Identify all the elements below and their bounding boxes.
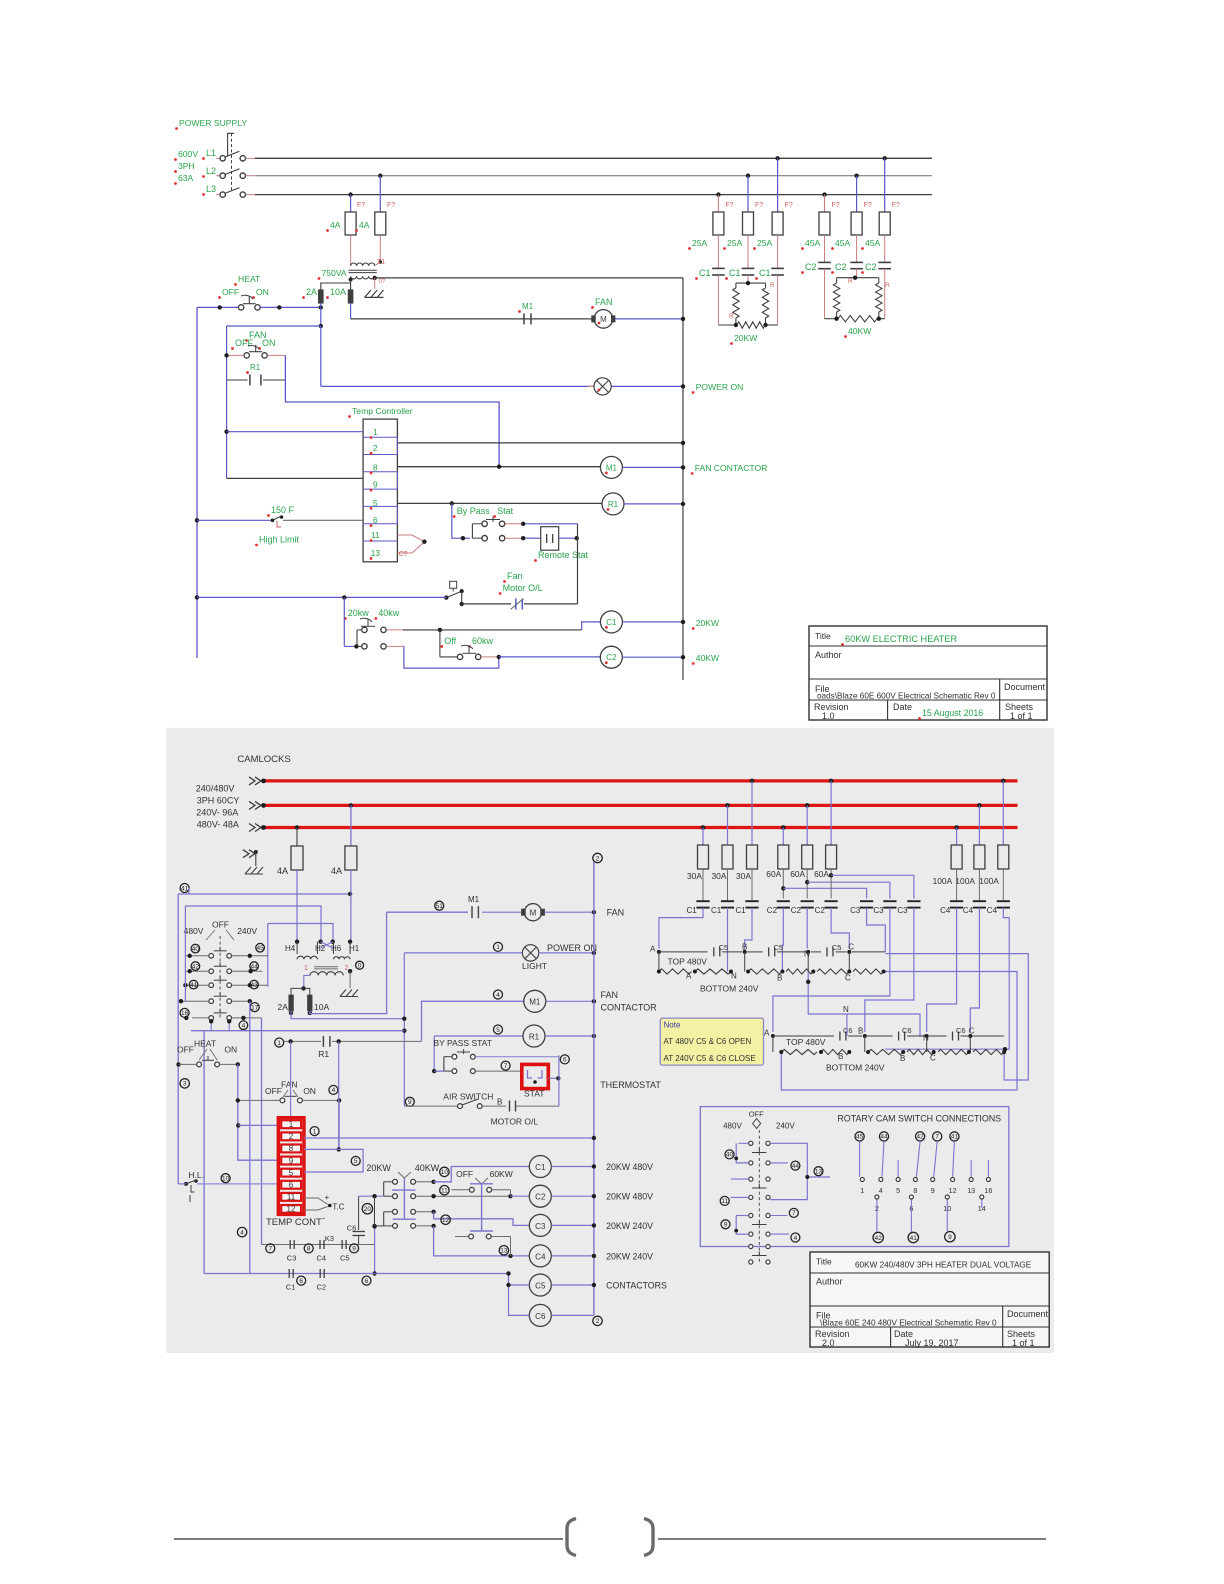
wire bypass top out <box>475 1056 559 1058</box>
svg-text:C1: C1 <box>729 268 741 278</box>
svg-text:2: 2 <box>596 855 600 862</box>
svg-text:F?: F? <box>357 202 365 209</box>
svg-text:1 of 1: 1 of 1 <box>1010 711 1033 721</box>
wire bank row4 to C4 coil <box>416 1225 434 1227</box>
svg-text:L1: L1 <box>206 148 216 158</box>
svg-text:12: 12 <box>442 1217 450 1224</box>
svg-text:F?: F? <box>864 202 872 209</box>
svg-text:100A: 100A <box>979 876 999 886</box>
svg-text:44: 44 <box>792 1163 800 1170</box>
svg-text:3PH 60CY: 3PH 60CY <box>197 796 240 806</box>
fuse 2A control <box>289 995 293 1011</box>
svg-text:40KW: 40KW <box>415 1163 440 1173</box>
svg-text:7: 7 <box>268 1246 272 1253</box>
wire right loop 2 <box>885 954 1028 1080</box>
circled 13c <box>814 1167 823 1176</box>
wire 480V top loop <box>188 888 190 894</box>
svg-text:480V: 480V <box>723 1121 742 1130</box>
wire T1 to fuses 2A/10A <box>321 280 351 291</box>
selector right leads <box>232 955 268 957</box>
svg-text:C2: C2 <box>815 906 826 915</box>
wire light/airswitch riser <box>403 953 405 1106</box>
lamp POWER ON <box>320 326 322 386</box>
wire fuse1 to H4 <box>296 870 298 942</box>
node bus2 to F2 <box>349 803 353 807</box>
wire pin5 row <box>304 1149 363 1172</box>
circled 40 <box>191 944 200 953</box>
coil C4 control <box>529 1245 551 1267</box>
transformer T1 750VA <box>351 263 375 266</box>
svg-text:Remote Stat: Remote Stat <box>538 550 589 560</box>
svg-text:9: 9 <box>373 480 378 490</box>
node L1 tap 45A <box>883 156 887 160</box>
svg-text:BOTTOM 240V: BOTTOM 240V <box>700 984 759 994</box>
svg-text:60kw: 60kw <box>472 636 494 646</box>
svg-text:480V- 48A: 480V- 48A <box>197 820 239 830</box>
svg-text:OFF: OFF <box>222 287 239 297</box>
svg-text:H6: H6 <box>331 944 342 953</box>
wire HEAT row <box>197 306 238 308</box>
svg-text:Motor O/L: Motor O/L <box>503 583 543 593</box>
fuse 25A #1 <box>713 212 724 235</box>
svg-text:1: 1 <box>289 1120 294 1129</box>
svg-text:B: B <box>497 1098 502 1107</box>
svg-text:40: 40 <box>192 946 200 953</box>
svg-text:30A: 30A <box>687 871 702 881</box>
svg-text:9: 9 <box>948 1234 952 1241</box>
wire aux vertical <box>290 1042 292 1126</box>
svg-text:60A: 60A <box>766 869 781 879</box>
svg-text:H4: H4 <box>285 944 296 953</box>
svg-text:C1: C1 <box>687 906 698 915</box>
svg-text:R1: R1 <box>608 500 619 509</box>
wire L2 bus <box>255 175 932 177</box>
title block lower sheet <box>810 1252 1049 1347</box>
svg-text:H2: H2 <box>315 944 326 953</box>
svg-text:ON: ON <box>303 1086 316 1096</box>
svg-text:FAN: FAN <box>281 1080 298 1090</box>
circled 4b <box>239 1021 248 1030</box>
svg-text:45A: 45A <box>865 238 881 248</box>
circled 13b <box>499 1246 508 1255</box>
svg-text:+: + <box>325 1193 330 1202</box>
svg-text:25A: 25A <box>727 238 743 248</box>
svg-text:8: 8 <box>289 1144 294 1153</box>
circled 9c <box>721 1220 730 1229</box>
circled 2 bottom <box>593 1316 602 1325</box>
circled 3 <box>180 1079 189 1088</box>
wire fan motor row <box>387 911 468 913</box>
wire right loop 1 <box>781 972 1017 1091</box>
svg-text:30A: 30A <box>712 871 727 881</box>
svg-text:20: 20 <box>364 1206 372 1213</box>
footer rule right <box>658 1538 1046 1540</box>
wire K-caps row1 <box>262 1244 375 1246</box>
svg-text:C3: C3 <box>535 1222 546 1231</box>
svg-text:L2: L2 <box>206 166 216 176</box>
svg-text:C1: C1 <box>286 1283 296 1292</box>
wire 40kw routing <box>386 645 404 647</box>
wire R1 to pin8 <box>338 1042 340 1150</box>
svg-text:Document: Document <box>1004 682 1046 692</box>
coil C1 control <box>529 1156 551 1178</box>
wire N feed <box>846 1014 848 1036</box>
svg-text:OFF: OFF <box>265 1086 282 1096</box>
svg-text:12: 12 <box>287 1205 296 1214</box>
svg-text:Title: Title <box>816 1257 832 1267</box>
wire 25A feeders <box>717 195 719 212</box>
fuse F3 2A <box>319 290 323 303</box>
wire bank row3 to C3 coil <box>416 1211 434 1213</box>
fuse 60A #2 <box>805 803 810 808</box>
svg-text:4A: 4A <box>331 866 342 876</box>
svg-text:0: 0 <box>358 963 362 970</box>
svg-text:16: 16 <box>181 1010 189 1017</box>
svg-text:25A: 25A <box>692 238 708 248</box>
circled 6b2 <box>560 1055 569 1064</box>
contact fan motor O/L <box>515 598 517 609</box>
capacitor C2b <box>319 1269 321 1278</box>
lower schematic panel background <box>166 728 1054 1353</box>
svg-text:oads\Blaze 60E 600V Electrical: oads\Blaze 60E 600V Electrical Schematic… <box>817 692 996 701</box>
svg-text:C2: C2 <box>805 262 817 272</box>
fuse 45A #3 <box>879 212 890 235</box>
node 2A bottom <box>319 305 323 309</box>
circled 44b <box>791 1161 800 1170</box>
svg-text:4: 4 <box>332 1087 336 1094</box>
svg-text:ROTARY CAM SWITCH CONNECTIONS: ROTARY CAM SWITCH CONNECTIONS <box>837 1114 1001 1124</box>
wire HL row <box>178 1183 186 1185</box>
svg-text:C6: C6 <box>956 1026 966 1035</box>
wire 20kw out to C1 <box>386 629 403 631</box>
svg-text:M: M <box>600 315 607 324</box>
svg-text:T1: T1 <box>377 259 385 266</box>
circled 41 <box>180 884 189 893</box>
circled 20 <box>362 1204 372 1214</box>
svg-text:Temp Controller: Temp Controller <box>352 406 413 416</box>
svg-text:Stat: Stat <box>497 506 514 516</box>
svg-text:R1: R1 <box>250 363 261 372</box>
circled 41b <box>189 980 198 989</box>
svg-text:480V: 480V <box>184 926 204 936</box>
capacitor C1b <box>288 1269 290 1278</box>
svg-text:FAN: FAN <box>595 297 613 307</box>
wire motor to rail <box>615 318 683 320</box>
motor M control <box>524 904 541 921</box>
circled 10b <box>221 1174 230 1183</box>
svg-text:6: 6 <box>299 1278 303 1285</box>
node L2 tap 25A <box>746 174 750 178</box>
wire rail 204 <box>203 1031 205 1273</box>
wire O/L feed <box>197 596 446 598</box>
wire C6 feed <box>509 1285 530 1315</box>
wire C1 coil to rail <box>622 621 683 623</box>
svg-text:AIR SWITCH: AIR SWITCH <box>443 1092 493 1102</box>
circled 16 <box>180 1008 189 1017</box>
circled 11b <box>440 1186 449 1195</box>
svg-text:N: N <box>731 972 737 981</box>
svg-text:C3: C3 <box>897 906 908 915</box>
svg-text:6: 6 <box>373 515 378 525</box>
svg-text:11: 11 <box>721 1198 728 1205</box>
wire pin2 long <box>304 1137 594 1139</box>
svg-text:11: 11 <box>371 530 380 540</box>
svg-text:3: 3 <box>183 1081 187 1088</box>
wires rotary terminals <box>859 1141 861 1177</box>
camlock L1 <box>249 777 255 785</box>
circled 40b <box>725 1150 734 1159</box>
wire rail 249 <box>249 1001 251 1273</box>
svg-text:H1: H1 <box>349 944 360 953</box>
svg-text:C3: C3 <box>287 1254 297 1263</box>
thermostat STAT highlighted <box>522 1064 549 1088</box>
svg-text:POWER SUPPLY: POWER SUPPLY <box>179 118 247 128</box>
svg-text:July 19, 2017: July 19, 2017 <box>905 1338 959 1348</box>
svg-text:45: 45 <box>856 1134 864 1141</box>
svg-text:MOTOR O/L: MOTOR O/L <box>491 1117 539 1127</box>
wire left rail B <box>184 906 186 1001</box>
wire pin8 row <box>304 1148 339 1150</box>
svg-text:OFF: OFF <box>749 1110 764 1119</box>
svg-text:F?: F? <box>755 202 763 209</box>
contact C2 pole b <box>850 261 863 263</box>
node L3-F1 tap <box>348 192 352 196</box>
svg-text:41: 41 <box>181 885 189 892</box>
svg-text:POWER ON: POWER ON <box>547 943 597 953</box>
wire C5 feed <box>509 1274 530 1286</box>
circled 4c <box>494 990 503 999</box>
svg-text:25A: 25A <box>757 238 773 248</box>
coil M1 <box>600 456 622 478</box>
circled 8 <box>304 1244 313 1253</box>
fuse 30A #3 <box>750 779 755 784</box>
svg-text:5: 5 <box>496 1027 500 1034</box>
circled 44 <box>250 962 259 971</box>
fuse 25A #2 <box>743 212 754 235</box>
svg-text:0?: 0? <box>379 279 386 285</box>
svg-text:C5: C5 <box>340 1254 350 1263</box>
svg-text:150 F: 150 F <box>271 505 295 515</box>
svg-text:C?: C? <box>399 551 408 558</box>
svg-text:C2: C2 <box>865 262 877 272</box>
svg-text:9: 9 <box>289 1156 294 1165</box>
svg-text:5: 5 <box>373 498 378 508</box>
footer page brace right <box>644 1519 653 1556</box>
wires fuse to C1 contacts <box>717 235 719 268</box>
svg-text:CAMLOCKS: CAMLOCKS <box>237 754 290 765</box>
svg-text:R: R <box>848 278 853 285</box>
svg-text:C1: C1 <box>606 618 617 627</box>
svg-text:100A: 100A <box>933 876 953 886</box>
svg-text:B: B <box>838 1052 843 1061</box>
svg-text:B: B <box>858 1027 863 1036</box>
svg-text:240V: 240V <box>776 1121 795 1130</box>
svg-text:20KW: 20KW <box>696 618 720 628</box>
svg-text:FAN CONTACTOR: FAN CONTACTOR <box>695 463 768 473</box>
svg-text:2.0: 2.0 <box>822 1338 835 1348</box>
wire fan motor line <box>351 318 592 320</box>
svg-text:C4: C4 <box>940 906 951 915</box>
svg-text:40KW: 40KW <box>848 326 872 336</box>
coil C1 <box>600 611 622 633</box>
svg-text:63A: 63A <box>178 173 194 183</box>
svg-text:M1: M1 <box>522 302 534 311</box>
svg-text:7: 7 <box>935 1134 939 1141</box>
wire rail 261 <box>261 1018 263 1245</box>
wire remote stat to O/L <box>559 537 578 539</box>
svg-text:60KW: 60KW <box>490 1169 513 1179</box>
svg-text:51: 51 <box>436 903 444 910</box>
svg-text:C5: C5 <box>535 1281 546 1290</box>
svg-text:C6: C6 <box>902 1026 912 1035</box>
wire pin1 control <box>238 1124 278 1126</box>
svg-text:60KW ELECTRIC HEATER: 60KW ELECTRIC HEATER <box>845 634 958 644</box>
wire 2A to fan-switch rail <box>320 303 322 326</box>
svg-text:B: B <box>900 1054 905 1063</box>
svg-text:42: 42 <box>875 1235 883 1242</box>
svg-text:Off: Off <box>444 636 456 646</box>
wire bank row1 to C1 coil <box>416 1181 434 1183</box>
svg-text:C1: C1 <box>699 268 711 278</box>
camlock L2 <box>249 801 255 809</box>
svg-text:20KW: 20KW <box>366 1163 391 1173</box>
contact motor O/L control <box>482 1105 506 1107</box>
wire fan rail <box>226 326 228 478</box>
circled 51 <box>435 901 444 910</box>
svg-text:TOP 480V: TOP 480V <box>668 957 708 967</box>
svg-text:20kw: 20kw <box>348 608 370 618</box>
ground T1 secondary <box>374 278 376 289</box>
svg-text:POWER ON: POWER ON <box>696 382 744 392</box>
node L1 tap 25A <box>775 156 779 160</box>
svg-text:TEMP CONT: TEMP CONT <box>266 1217 322 1228</box>
svg-text:42: 42 <box>192 963 200 970</box>
svg-text:C1: C1 <box>535 1163 546 1172</box>
selector left leads <box>185 955 208 957</box>
svg-text:16: 16 <box>984 1186 992 1195</box>
svg-text:1: 1 <box>313 1128 317 1135</box>
svg-text:9: 9 <box>931 1186 935 1195</box>
svg-text:100A: 100A <box>955 876 975 886</box>
svg-text:A: A <box>764 1029 770 1038</box>
svg-text:15 August 2016: 15 August 2016 <box>922 708 983 718</box>
svg-text:Fan: Fan <box>507 571 523 581</box>
coil C2 <box>600 646 622 668</box>
svg-text:C4: C4 <box>535 1252 546 1261</box>
wire T1 secondary to right rail <box>375 277 683 279</box>
svg-text:1: 1 <box>304 965 308 972</box>
svg-text:30A: 30A <box>736 871 751 881</box>
svg-text:C5: C5 <box>832 943 842 952</box>
circled 2 top <box>593 853 602 862</box>
svg-text:AT 240V C5 & C6 CLOSE: AT 240V C5 & C6 CLOSE <box>664 1054 756 1063</box>
svg-text:42: 42 <box>916 1134 924 1141</box>
svg-text:750VA: 750VA <box>322 268 347 278</box>
svg-text:20KW 480V: 20KW 480V <box>606 1162 653 1172</box>
svg-text:45A: 45A <box>805 238 821 248</box>
contactor contacts C1 C2 C3 C4 rows <box>702 869 704 901</box>
bus L2 <box>262 804 1018 807</box>
wire rotary pair1 out <box>770 1143 807 1199</box>
svg-text:240V: 240V <box>237 926 257 936</box>
circled 7d <box>789 1208 798 1217</box>
footer page brace left <box>567 1519 576 1556</box>
svg-text:C1: C1 <box>759 268 771 278</box>
fuse 10A control <box>308 995 312 1011</box>
circled 10c <box>440 1167 449 1176</box>
wire F2 feeder <box>379 176 381 212</box>
fuse 4A control #1 <box>291 846 303 870</box>
svg-text:44: 44 <box>880 1134 888 1141</box>
wire left rail <box>196 307 198 658</box>
svg-text:M1: M1 <box>529 998 541 1007</box>
fuse 30A #2 <box>725 803 730 808</box>
circled 6c <box>297 1276 306 1285</box>
svg-text:40kw: 40kw <box>378 608 400 618</box>
svg-text:C2: C2 <box>791 906 802 915</box>
camlock ground <box>243 850 249 858</box>
svg-text:CONTACTOR: CONTACTOR <box>601 1003 658 1013</box>
wire left rail A <box>177 894 179 1184</box>
svg-text:8: 8 <box>307 1246 311 1253</box>
coil C6 control <box>529 1304 551 1326</box>
svg-text:\Blaze 60E 240 480V Electrical: \Blaze 60E 240 480V Electrical Schematic… <box>820 1319 997 1328</box>
svg-text:10: 10 <box>222 1176 230 1183</box>
rotary cam switch enclosure <box>700 1107 1009 1247</box>
wire selector link <box>439 630 441 657</box>
circled 5b <box>494 1025 503 1034</box>
circled 12 <box>441 1215 450 1224</box>
thermocouple wires pins 11/13 <box>397 535 424 542</box>
wire bank row2 to C2 coil <box>416 1195 511 1197</box>
capacitor C5 <box>341 1240 343 1249</box>
svg-text:2: 2 <box>596 1318 600 1325</box>
svg-text:240/480V: 240/480V <box>196 784 235 794</box>
bus L3 <box>262 826 1018 829</box>
node L3 tap 25A <box>716 192 720 196</box>
svg-text:20KW 240V: 20KW 240V <box>606 1221 653 1231</box>
coil C2 control <box>529 1185 551 1207</box>
svg-text:FAN: FAN <box>601 990 619 1000</box>
wire secondary to 2A/10A <box>304 975 310 988</box>
svg-text:C2: C2 <box>317 1283 327 1292</box>
wire bypass to remote stat <box>505 523 523 525</box>
svg-text:A: A <box>650 945 656 954</box>
wire F2 to T1 <box>379 235 381 262</box>
circled 7c <box>266 1244 275 1253</box>
circled 9b <box>350 1244 359 1253</box>
wire M1 coil to rail <box>622 466 683 468</box>
svg-text:-: - <box>322 1213 325 1223</box>
svg-text:3PH: 3PH <box>178 161 195 171</box>
circled 9d <box>945 1232 955 1242</box>
heater element bank 40KW <box>824 269 826 319</box>
svg-text:Note: Note <box>664 1021 681 1030</box>
svg-text:13: 13 <box>500 1248 508 1255</box>
svg-text:Date: Date <box>893 702 912 712</box>
circled 4e <box>237 1227 246 1236</box>
wires fuse to C2 contacts <box>824 235 826 262</box>
coil C3 control <box>529 1214 551 1236</box>
fuse 100A #2 <box>977 803 982 808</box>
wire L3 bus <box>255 194 932 196</box>
svg-text:C: C <box>969 1027 975 1036</box>
node L2 tap 45A <box>854 174 858 178</box>
svg-text:43: 43 <box>250 982 258 989</box>
circled 42 <box>191 962 200 971</box>
svg-text:OFF: OFF <box>212 920 229 930</box>
wire 240V loop <box>268 924 333 942</box>
